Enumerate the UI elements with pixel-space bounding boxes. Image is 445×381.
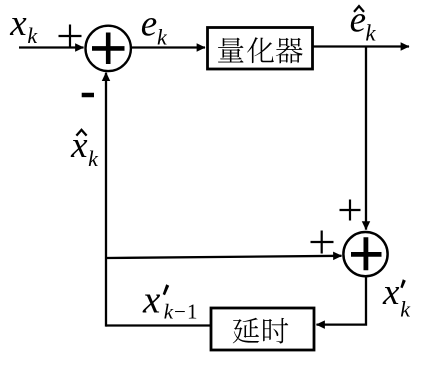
svg-text:k: k bbox=[157, 25, 168, 50]
svg-text:−: − bbox=[174, 300, 186, 324]
svg-text:x: x bbox=[382, 272, 400, 313]
label e-hat_k bbox=[350, 0, 377, 46]
wire: quantizer output arrow to the right bbox=[313, 45, 409, 47]
label x-prime_k-1 bbox=[142, 279, 198, 324]
text 量化器 bbox=[218, 37, 303, 63]
quantizer box U1 bbox=[208, 28, 313, 70]
label x_k bbox=[9, 3, 38, 48]
svg-text:x: x bbox=[9, 3, 27, 44]
wire: summer S2 output down then left into delay box bbox=[317, 277, 367, 324]
wire: branch down into summer S2 bbox=[365, 47, 367, 230]
svg-text:k: k bbox=[88, 146, 99, 171]
summing junction S2 bbox=[343, 232, 387, 276]
svg-text:x: x bbox=[142, 279, 161, 322]
plus sign at S2 top input bbox=[340, 200, 361, 221]
label x-hat_k bbox=[70, 125, 99, 171]
wire: delay output to the left bbox=[106, 324, 210, 326]
minus sign at S1 bottom input bbox=[82, 93, 94, 98]
plus sign at S1 top-left input bbox=[59, 25, 82, 47]
wire: feedback line into summer S2 left bbox=[106, 256, 342, 258]
delay box U2 bbox=[211, 308, 314, 350]
text 延时 bbox=[233, 318, 289, 344]
svg-text:k: k bbox=[27, 23, 38, 48]
svg-text:e: e bbox=[141, 4, 157, 45]
wire: summer S1 to quantizer bbox=[132, 46, 206, 48]
svg-text:k: k bbox=[164, 300, 174, 324]
svg-text:k: k bbox=[365, 21, 376, 46]
wire: feedback line up into summer S1 bottom bbox=[105, 73, 107, 327]
plus sign at S2 left input bbox=[311, 231, 334, 254]
label x-prime_k bbox=[382, 272, 411, 322]
label e_k bbox=[141, 4, 168, 50]
svg-text:k: k bbox=[400, 297, 411, 322]
summing junction S1 bbox=[86, 26, 131, 71]
wire: input arrow into summer S1 bbox=[19, 46, 84, 48]
svg-text:1: 1 bbox=[187, 300, 198, 324]
